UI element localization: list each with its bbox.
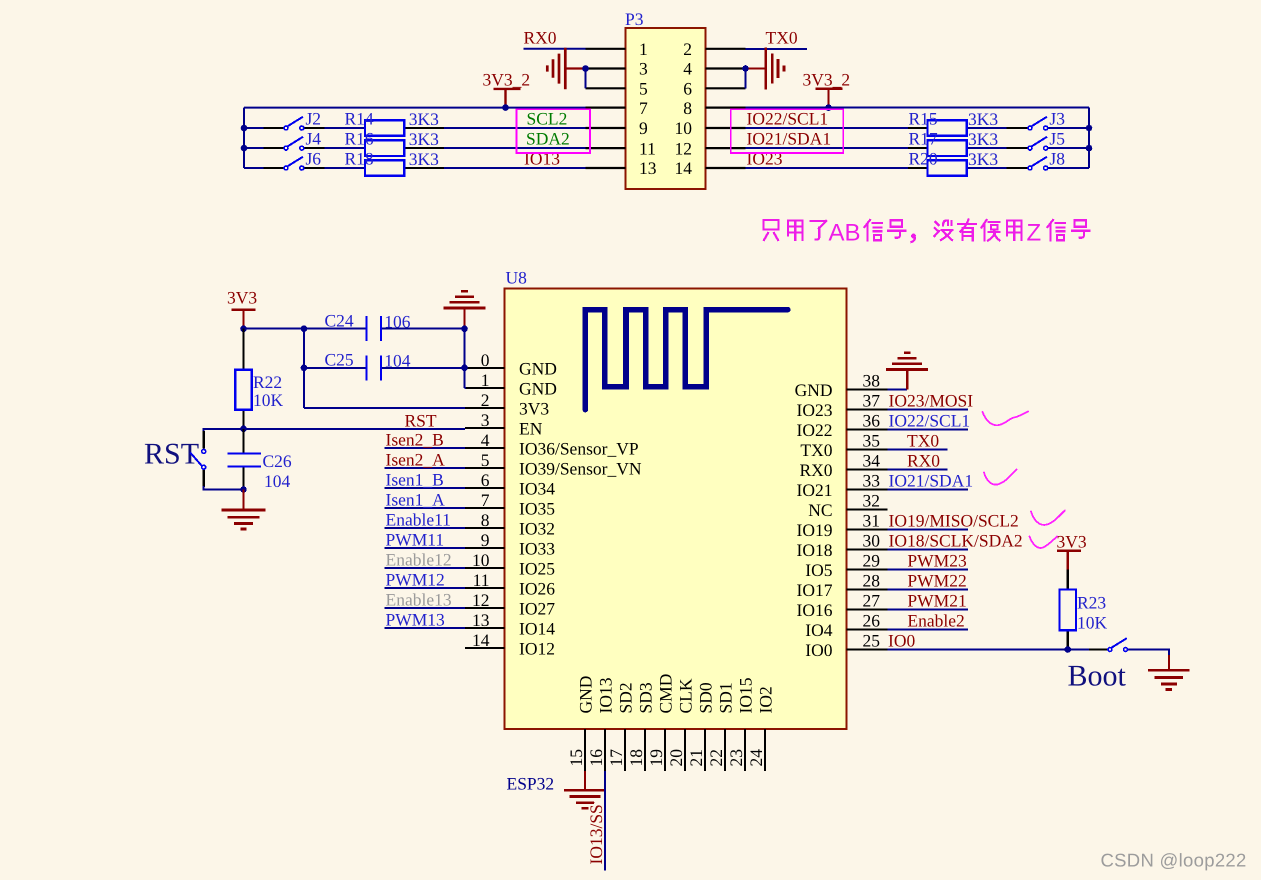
wire right pull-up rail xyxy=(1088,108,1090,168)
junction node 3V3_2/pin7 wire xyxy=(502,104,509,111)
svg-text:8: 8 xyxy=(481,510,490,530)
U8 bottom pin stubs (pins 15-24) xyxy=(585,729,765,771)
junction node ground/C25/pin0 xyxy=(461,365,468,372)
power port 3V3 (left) xyxy=(227,288,257,329)
svg-text:6: 6 xyxy=(481,470,490,490)
svg-text:12: 12 xyxy=(675,138,693,158)
svg-text:AB: AB xyxy=(829,220,861,247)
svg-text:SD1: SD1 xyxy=(716,682,736,713)
ground GND Boot (earth) xyxy=(1148,655,1190,690)
svg-text:5: 5 xyxy=(639,79,648,99)
junction node ground/C24 xyxy=(461,325,468,332)
switch J4 xyxy=(264,129,325,151)
svg-text:R15: R15 xyxy=(909,108,938,128)
svg-text:IO32: IO32 xyxy=(519,518,555,538)
wires left net labels rows xyxy=(385,448,466,628)
svg-text:C26: C26 xyxy=(263,451,292,471)
svg-text:IO18/SCLK/SDA2: IO18/SCLK/SDA2 xyxy=(889,531,1023,551)
highlight box IO22/IO21 xyxy=(731,109,844,153)
wire branch down to C25 and 3V3 pin xyxy=(304,329,465,408)
switch J2 xyxy=(264,108,325,130)
svg-text:RX0: RX0 xyxy=(907,451,940,471)
svg-text:IO18: IO18 xyxy=(797,540,833,560)
ground GND near P3 pin 3 (sideways) xyxy=(547,48,585,90)
svg-text:IO25: IO25 xyxy=(519,558,555,578)
svg-text:IO13/SS': IO13/SS' xyxy=(586,801,606,864)
svg-text:NC: NC xyxy=(808,500,832,520)
junction node C25 branch xyxy=(301,365,308,372)
svg-text:J3: J3 xyxy=(1049,108,1065,128)
svg-text:9: 9 xyxy=(481,530,490,550)
svg-text:11: 11 xyxy=(639,138,656,158)
svg-text:IO27: IO27 xyxy=(519,598,555,618)
svg-text:IO36/Sensor_VP: IO36/Sensor_VP xyxy=(519,438,639,458)
svg-text:Boot: Boot xyxy=(1068,660,1127,693)
wire P3 pin3 to pin5 xyxy=(585,69,587,89)
svg-text:IO26: IO26 xyxy=(519,578,555,598)
wire net row pin 29 xyxy=(887,569,968,571)
switch J3 xyxy=(1007,108,1066,130)
svg-text:3K3: 3K3 xyxy=(409,149,439,169)
resistor R22 10K xyxy=(235,329,283,429)
svg-text:27: 27 xyxy=(863,590,881,610)
svg-text:35: 35 xyxy=(863,430,881,450)
svg-text:36: 36 xyxy=(863,410,881,430)
highlight box SCL2/SDA2 xyxy=(517,109,591,153)
wire row J3 segments xyxy=(746,127,1090,129)
svg-text:28: 28 xyxy=(863,570,881,590)
svg-text:37: 37 xyxy=(863,390,881,410)
svg-text:15: 15 xyxy=(566,749,586,767)
svg-text:IO23: IO23 xyxy=(797,400,833,420)
svg-text:J8: J8 xyxy=(1049,148,1065,168)
junction node pin4 xyxy=(742,65,749,72)
U8 left pin stubs (pins 0-14) xyxy=(465,368,505,648)
svg-text:PWM13: PWM13 xyxy=(386,610,446,630)
svg-text:PWM21: PWM21 xyxy=(907,591,966,611)
svg-text:7: 7 xyxy=(481,490,490,510)
svg-text:13: 13 xyxy=(472,610,490,630)
resistor R23 10K xyxy=(1059,570,1107,650)
svg-text:RST: RST xyxy=(405,411,437,431)
svg-text:34: 34 xyxy=(863,450,881,470)
wire left pull-up rail xyxy=(243,108,245,168)
switch J5 xyxy=(1007,129,1066,151)
svg-text:IO17: IO17 xyxy=(797,580,833,600)
svg-text:R17: R17 xyxy=(909,129,938,149)
U8 right pin stubs (pins 38-25) xyxy=(847,390,888,650)
svg-text:RX0: RX0 xyxy=(799,460,832,480)
svg-text:3V3_2: 3V3_2 xyxy=(803,70,851,90)
svg-text:IO34: IO34 xyxy=(519,478,555,498)
svg-text:3V3: 3V3 xyxy=(1057,532,1087,552)
svg-text:3V3_2: 3V3_2 xyxy=(483,70,531,90)
U8 right pin numbers 38-25 xyxy=(863,370,881,650)
svg-text:GND: GND xyxy=(795,380,833,400)
svg-text:IO15: IO15 xyxy=(736,677,756,713)
svg-text:IO4: IO4 xyxy=(805,620,832,640)
resistor R16 3K3 xyxy=(345,129,445,156)
switch Boot xyxy=(1089,638,1128,651)
svg-text:IO22/SCL1: IO22/SCL1 xyxy=(889,411,971,431)
wire 3V3_2 rail to P3 pin 8 xyxy=(746,107,1090,109)
ground GND above C24 (inverted earth) xyxy=(444,291,486,328)
wire net row pin 36 xyxy=(887,429,968,431)
svg-text:C25: C25 xyxy=(325,350,354,370)
svg-text:IO33: IO33 xyxy=(519,538,555,558)
svg-text:21: 21 xyxy=(686,749,706,767)
svg-text:GND: GND xyxy=(576,676,596,714)
wire row J4 segments xyxy=(244,147,586,149)
svg-text:18: 18 xyxy=(626,749,646,767)
svg-text:3V3: 3V3 xyxy=(227,288,257,308)
svg-text:IO12: IO12 xyxy=(519,638,555,658)
svg-text:IO23/MOSI: IO23/MOSI xyxy=(889,391,974,411)
svg-text:SD2: SD2 xyxy=(616,682,636,713)
svg-text:106: 106 xyxy=(384,312,411,332)
svg-text:29: 29 xyxy=(863,550,881,570)
svg-text:Z: Z xyxy=(1027,220,1042,247)
wire TX0 to P3 pin 2 xyxy=(746,48,808,50)
svg-text:IO39/Sensor_VN: IO39/Sensor_VN xyxy=(519,458,642,478)
U8 bottom pin numbers 15-24 xyxy=(566,749,766,767)
svg-text:16: 16 xyxy=(586,749,606,767)
svg-text:IO21/SDA1: IO21/SDA1 xyxy=(747,129,832,149)
U8 right pin names xyxy=(795,380,833,660)
svg-text:PWM22: PWM22 xyxy=(907,571,966,591)
svg-text:10K: 10K xyxy=(253,390,284,410)
svg-text:IO2: IO2 xyxy=(756,686,776,713)
svg-text:5: 5 xyxy=(481,450,490,470)
junction nodes on right rail xyxy=(1086,125,1093,132)
wire C25 row to pin 0 xyxy=(304,367,466,369)
svg-text:33: 33 xyxy=(863,470,881,490)
P3 pin numbers 1-14 xyxy=(639,39,692,178)
svg-text:PWM12: PWM12 xyxy=(386,570,445,590)
svg-text:IO19/MISO/SCL2: IO19/MISO/SCL2 xyxy=(889,511,1019,531)
svg-text:Isen2_A: Isen2_A xyxy=(386,450,446,470)
junction node 3V3_2/pin8 wire xyxy=(825,104,832,111)
resistor R14 3K3 xyxy=(345,108,445,135)
svg-text:4: 4 xyxy=(683,59,692,79)
ESP32 module U8 xyxy=(505,268,847,730)
svg-text:RX0: RX0 xyxy=(524,28,557,48)
svg-text:30: 30 xyxy=(863,530,881,550)
wire GND pin15 stem xyxy=(584,771,586,790)
svg-text:R16: R16 xyxy=(345,129,374,149)
ground GND below C26 (earth) xyxy=(222,490,266,530)
wire net row pin 28 xyxy=(887,589,968,591)
svg-text:IO35: IO35 xyxy=(519,498,555,518)
svg-text:24: 24 xyxy=(746,749,766,767)
wire RST to EN pin xyxy=(244,428,466,430)
svg-text:EN: EN xyxy=(519,418,543,438)
svg-text:R20: R20 xyxy=(909,148,938,168)
svg-text:10: 10 xyxy=(472,550,490,570)
svg-text:2: 2 xyxy=(683,39,692,59)
svg-text:SCL2: SCL2 xyxy=(527,108,568,128)
svg-text:2: 2 xyxy=(481,390,490,410)
P3 pin stubs right (pins 2,4,6,8,10,12,14) xyxy=(706,49,746,168)
junction node RST xyxy=(240,426,247,433)
wire 3V3_2 rail to P3 pin 7 xyxy=(244,107,586,109)
wire row J2 segments xyxy=(244,127,586,129)
wire row J6 segments xyxy=(244,167,586,169)
U8 left pin numbers 0-14 xyxy=(472,350,490,650)
power port 3V3_2 right xyxy=(803,70,851,108)
U8 antenna meander graphic xyxy=(585,310,787,410)
svg-text:R14: R14 xyxy=(345,108,374,128)
wire net row pin 35 xyxy=(887,449,947,451)
svg-text:R23: R23 xyxy=(1077,593,1106,613)
annotation squiggle 1 xyxy=(983,412,1029,426)
wire pin38 to ground xyxy=(887,389,907,391)
capacitor C24 106 xyxy=(325,311,411,342)
svg-text:J5: J5 xyxy=(1049,129,1065,149)
svg-text:J4: J4 xyxy=(306,129,322,149)
svg-text:SD0: SD0 xyxy=(696,682,716,713)
svg-text:32: 32 xyxy=(863,490,881,510)
connector P3 xyxy=(625,9,706,189)
svg-text:14: 14 xyxy=(472,630,490,650)
svg-text:CLK: CLK xyxy=(676,678,696,713)
svg-text:PWM11: PWM11 xyxy=(386,530,445,550)
annotation squiggle 2 xyxy=(984,470,1017,485)
svg-text:Enable2: Enable2 xyxy=(907,611,964,631)
wire net row pin 27 xyxy=(887,609,968,611)
svg-text:26: 26 xyxy=(863,610,881,630)
junction node 3V3/C24 xyxy=(240,325,247,332)
svg-text:R22: R22 xyxy=(253,372,282,392)
svg-text:1: 1 xyxy=(639,39,648,59)
svg-text:IO21: IO21 xyxy=(797,480,833,500)
svg-text:38: 38 xyxy=(863,370,881,390)
wire net row pin 26 xyxy=(887,629,968,631)
svg-text:3K3: 3K3 xyxy=(968,149,998,169)
svg-text:3K3: 3K3 xyxy=(968,109,998,129)
svg-text:CSDN @loop222: CSDN @loop222 xyxy=(1101,850,1247,871)
svg-text:SD3: SD3 xyxy=(636,682,656,713)
svg-text:14: 14 xyxy=(675,158,693,178)
svg-text:Isen1_B: Isen1_B xyxy=(386,470,444,490)
svg-text:19: 19 xyxy=(646,749,666,767)
svg-text:13: 13 xyxy=(639,158,657,178)
svg-text:IO23: IO23 xyxy=(747,149,783,169)
wire net row pin 31 xyxy=(887,529,968,531)
resistor R15 3K3 xyxy=(908,108,998,135)
wire row J5 segments xyxy=(746,147,1090,149)
ground GND pin15 (earth) xyxy=(564,790,606,808)
wire ground rail down to pin 1 xyxy=(465,329,467,388)
wire IO13 net down xyxy=(604,771,606,871)
U8 left pin names xyxy=(519,358,642,658)
wire row J8 segments xyxy=(746,167,1090,169)
power port 3V3 (right) xyxy=(1057,532,1087,571)
svg-text:GND: GND xyxy=(519,358,557,378)
svg-text:8: 8 xyxy=(683,98,692,118)
annotation squiggle 3 xyxy=(1031,511,1065,525)
svg-text:TX0: TX0 xyxy=(907,431,939,451)
svg-text:IO14: IO14 xyxy=(519,618,555,638)
svg-text:CMD: CMD xyxy=(656,674,676,714)
wire net row pin 30 xyxy=(887,549,968,551)
svg-text:R18: R18 xyxy=(345,148,374,168)
svg-text:PWM23: PWM23 xyxy=(907,551,967,571)
svg-text:IO13: IO13 xyxy=(596,677,616,713)
svg-text:31: 31 xyxy=(863,510,881,530)
svg-text:IO19: IO19 xyxy=(797,520,833,540)
resistor R20 3K3 xyxy=(908,148,998,175)
svg-text:SDA2: SDA2 xyxy=(526,129,570,149)
switch J8 xyxy=(1007,148,1066,170)
svg-text:3: 3 xyxy=(481,410,490,430)
svg-text:TX0: TX0 xyxy=(766,28,798,48)
svg-text:IO22/SCL1: IO22/SCL1 xyxy=(747,108,829,128)
svg-text:3: 3 xyxy=(639,59,648,79)
svg-text:IO5: IO5 xyxy=(805,560,832,580)
svg-text:C24: C24 xyxy=(325,311,354,331)
svg-text:IO21/SDA1: IO21/SDA1 xyxy=(889,471,974,491)
svg-text:23: 23 xyxy=(726,749,746,767)
svg-text:3K3: 3K3 xyxy=(968,129,998,149)
ground GND pin38 (inverted earth) xyxy=(886,353,928,390)
svg-text:ESP32: ESP32 xyxy=(507,774,555,794)
svg-text:1: 1 xyxy=(481,370,490,390)
svg-text:104: 104 xyxy=(264,471,291,491)
svg-text:U8: U8 xyxy=(506,268,528,288)
switch RST (vertical) xyxy=(190,429,243,490)
wire net row pin 33 xyxy=(887,489,968,491)
svg-text:IO16: IO16 xyxy=(797,600,833,620)
svg-text:0: 0 xyxy=(481,350,490,370)
svg-text:10: 10 xyxy=(675,118,693,138)
svg-text:20: 20 xyxy=(666,749,686,767)
svg-text:J2: J2 xyxy=(306,108,322,128)
svg-text:12: 12 xyxy=(472,590,490,610)
svg-text:25: 25 xyxy=(863,630,881,650)
svg-text:6: 6 xyxy=(683,79,692,99)
U8 bottom pin names xyxy=(576,674,776,714)
wire RX0 to P3 pin 1 xyxy=(524,48,586,50)
svg-text:Enable13: Enable13 xyxy=(386,590,452,610)
svg-text:22: 22 xyxy=(706,749,726,767)
wire net row pin 34 xyxy=(887,469,947,471)
junction nodes on left rail xyxy=(241,125,248,132)
svg-text:Enable11: Enable11 xyxy=(386,510,451,530)
svg-text:11: 11 xyxy=(473,570,490,590)
junction node R23/IO0 xyxy=(1065,646,1072,653)
svg-text:J6: J6 xyxy=(306,148,322,168)
resistor R18 3K3 xyxy=(345,148,445,175)
svg-text:Isen2_B: Isen2_B xyxy=(386,430,444,450)
svg-text:3V3: 3V3 xyxy=(519,398,549,418)
capacitor C26 104 xyxy=(228,429,292,491)
svg-text:GND: GND xyxy=(519,378,557,398)
annotation text (Chinese): only AB signals used, Z signal not used xyxy=(764,220,1090,243)
svg-text:10K: 10K xyxy=(1077,613,1108,633)
switch J6 xyxy=(264,148,325,170)
svg-text:3K3: 3K3 xyxy=(409,109,439,129)
svg-text:P3: P3 xyxy=(625,9,644,29)
power port 3V3_2 left xyxy=(483,70,531,108)
svg-text:17: 17 xyxy=(606,749,626,767)
wire P3 pin4 to pin6 xyxy=(745,69,747,89)
svg-text:IO22: IO22 xyxy=(797,420,833,440)
junction node C24/C25 branch xyxy=(301,325,308,332)
svg-text:Enable12: Enable12 xyxy=(386,550,452,570)
wire C24 row xyxy=(244,328,465,330)
svg-text:TX0: TX0 xyxy=(800,440,832,460)
svg-text:104: 104 xyxy=(384,351,411,371)
svg-text:4: 4 xyxy=(481,430,490,450)
svg-text:Isen1_A: Isen1_A xyxy=(386,490,446,510)
svg-text:7: 7 xyxy=(639,98,648,118)
junction node pin3 xyxy=(582,65,589,72)
annotation squiggle 4 xyxy=(1030,537,1058,548)
svg-text:9: 9 xyxy=(639,118,648,138)
svg-text:IO13: IO13 xyxy=(524,149,560,169)
resistor R17 3K3 xyxy=(908,129,998,156)
capacitor C25 104 xyxy=(325,350,411,381)
wire net row pin 37 xyxy=(887,409,968,411)
P3 pin stubs left (pins 1,3,5,7,9,11,13) xyxy=(586,49,626,168)
junction node C26 bottom xyxy=(240,486,247,493)
svg-text:IO0: IO0 xyxy=(805,640,832,660)
svg-text:IO0: IO0 xyxy=(888,631,915,651)
svg-text:3K3: 3K3 xyxy=(409,129,439,149)
ground GND near P3 pin 4 (sideways) xyxy=(746,48,785,90)
wire IO0 row to Boot xyxy=(887,650,1169,662)
